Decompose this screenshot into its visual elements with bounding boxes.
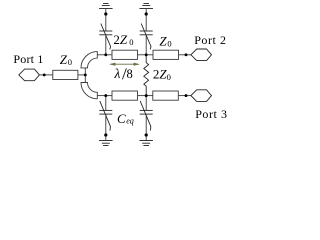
wire cap C1 to node [105,35,107,55]
dimension arrow lambda/8 [109,63,139,66]
svg-text:2Z: 2Z [113,32,128,47]
svg-text:Port 1: Port 1 [13,52,43,66]
svg-text:Z: Z [159,34,167,49]
resistor R1 2Z0 isolation [144,55,149,96]
svg-text:0: 0 [68,57,72,67]
svg-text:Port 2: Port 2 [194,33,226,47]
svg-text:0: 0 [167,72,171,82]
wire ground to cap C2 [145,9,147,32]
trimmer capacitor C4 (bottom-right) [140,101,153,131]
port P2 hexagon [191,49,212,61]
wire 2Z0 to Z0 top [138,54,154,56]
wire stub junction down [84,75,86,83]
curved line bend upper [81,52,97,68]
port P3 hexagon [191,90,212,102]
ground top-left [99,4,113,9]
svg-text:Z: Z [60,52,68,67]
port P1 hexagon [19,69,40,81]
wire bend to 2Z0 bottom [97,95,112,97]
svg-text:λ: λ [114,66,121,81]
transmission line 2Z0 (bottom) [112,91,138,100]
wire ground to cap C1 [105,9,107,32]
svg-text:eq: eq [126,116,134,125]
ground bottom-left [99,141,113,146]
wire node to cap C4 [145,96,147,111]
node dot cap C2 [145,12,148,15]
curved line bend lower [81,83,97,99]
wire bend to 2Z0 top [97,54,112,56]
junction node dots [43,12,188,136]
wire port1 to Z0 [39,74,52,76]
transmission line Z0 (bottom output) [153,91,179,100]
wire 2Z0 to Z0 bottom [138,95,153,97]
wire Z0 to port3 [178,95,191,97]
svg-text:2Z: 2Z [153,67,168,82]
wire Z0 to T-junction [78,74,85,76]
transmission line Z0 (top output) [153,50,179,59]
wire Z0 to port2 [179,54,191,56]
trimmer capacitor C3 (bottom-left) [99,101,112,131]
node dot cap C4 [145,133,148,136]
wire cap C4 to ground [145,114,147,140]
trimmer capacitor C2 (top-right) [140,24,153,50]
ground bottom-right [139,141,153,146]
node dot cap C1 [104,12,107,15]
wire stub junction up [84,68,86,75]
node dot cap C3 [104,133,107,136]
svg-text:C: C [117,111,126,126]
wire cap C3 to ground [105,114,107,140]
svg-text:0: 0 [129,37,133,47]
trimmer capacitor C1 (top-left) [99,24,112,50]
ground top-right [139,4,153,9]
wire node to cap C3 [105,96,107,111]
transmission line Z0 (input) [53,70,78,79]
wire cap C2 to node [145,35,147,55]
svg-text:8: 8 [127,67,133,81]
transmission line 2Z0 (top) [112,50,138,59]
svg-text:0: 0 [167,39,171,49]
svg-text:Port 3: Port 3 [195,107,227,121]
